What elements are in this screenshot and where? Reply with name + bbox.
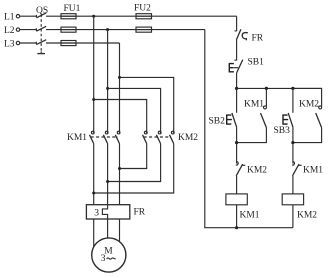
node dot U crossover xyxy=(92,98,95,101)
wire to KM2 coil xyxy=(292,176,294,194)
thermal relay FR heater box xyxy=(86,205,129,219)
wire control feed from row1 xyxy=(236,16,238,31)
wire W to motor xyxy=(119,219,121,242)
wire V below contact xyxy=(107,144,109,205)
svg-text:FR: FR xyxy=(134,208,146,218)
svg-text:L3: L3 xyxy=(4,39,15,49)
wire KM2 coil to rail xyxy=(292,205,294,228)
node dot KM1 aux tap xyxy=(265,87,268,90)
contactor KM1 main pole 3 xyxy=(115,131,120,143)
QS linkage dashed xyxy=(40,15,42,52)
contact KM2 aux NO xyxy=(293,88,322,142)
wire phase W vertical xyxy=(119,43,121,133)
fuse FU2 pole1 xyxy=(136,14,152,19)
wire FR to SB1 xyxy=(236,40,238,60)
wire row3 QS to drop xyxy=(46,42,120,44)
FR heater element symbol xyxy=(102,205,107,219)
wire row1 QS to control corner xyxy=(46,15,237,17)
KM1 linkage dashed xyxy=(91,136,118,138)
node dot branch B rejoin xyxy=(291,141,294,144)
wire L1 to QS xyxy=(20,15,37,17)
node L2 terminal xyxy=(16,28,19,31)
svg-text:KM1: KM1 xyxy=(240,210,260,220)
node dot W join xyxy=(118,167,121,170)
svg-text:FU1: FU1 xyxy=(64,4,81,14)
KM2 linkage dashed xyxy=(144,136,171,138)
fuse FU1 pole2 xyxy=(61,27,76,32)
contact KM1 NC interlock xyxy=(292,162,302,176)
wire phase V vertical xyxy=(107,30,109,134)
svg-text:FU2: FU2 xyxy=(134,4,151,14)
svg-text:3: 3 xyxy=(94,209,99,219)
wire L2 to QS xyxy=(20,29,37,31)
wire control return from row2 xyxy=(205,30,293,228)
pushbutton SB2 NO xyxy=(227,113,237,127)
QS handle bar xyxy=(37,52,45,54)
node dot V crossover xyxy=(106,87,109,90)
coil KM1 xyxy=(226,194,247,205)
wire KM2 pole2 out to V xyxy=(108,144,161,182)
contact KM2 NC interlock xyxy=(236,162,246,176)
contactor KM2 main pole 3 xyxy=(170,131,175,143)
svg-text:QS: QS xyxy=(36,6,48,16)
node L1 terminal xyxy=(16,15,19,18)
svg-text:KM1: KM1 xyxy=(244,99,264,109)
svg-text:KM1: KM1 xyxy=(303,165,323,175)
svg-text:KM1: KM1 xyxy=(67,133,87,143)
svg-text:FR: FR xyxy=(252,34,264,44)
wire KM2 pole3 out to U xyxy=(94,144,174,193)
wire U to motor xyxy=(93,219,95,247)
wire L3 to QS xyxy=(20,42,37,44)
pushbutton SB3 NO xyxy=(283,113,293,127)
switch QS pole 2 xyxy=(36,26,46,31)
wire node to SB2 xyxy=(236,88,238,112)
pushbutton SB1 NC xyxy=(229,60,243,73)
node L3 terminal xyxy=(16,41,19,44)
node dot branch A rejoin xyxy=(235,141,238,144)
svg-text:KM2: KM2 xyxy=(178,133,198,143)
node dot control top left xyxy=(235,87,238,90)
svg-text:KM2: KM2 xyxy=(247,165,267,175)
wire to KM2 interlock xyxy=(236,143,238,164)
node dot L1 drop xyxy=(92,15,95,18)
switch QS pole 1 xyxy=(36,13,46,18)
svg-text:SB1: SB1 xyxy=(248,57,265,67)
wire W to KM2 pole3 xyxy=(120,77,174,133)
contactor KM2 main pole 2 xyxy=(156,131,161,143)
fuse FU1 pole3 xyxy=(61,41,76,46)
wire KM1 coil to rail xyxy=(236,205,238,228)
wire to KM1 coil xyxy=(236,176,238,194)
wire V to KM2 pole2 xyxy=(108,88,161,133)
contactor KM1 main pole 1 xyxy=(90,131,95,143)
svg-text:SB2: SB2 xyxy=(209,117,226,127)
svg-text:KM2: KM2 xyxy=(297,210,317,220)
coil KM2 xyxy=(282,194,303,205)
wire SB3 down xyxy=(292,127,294,142)
contact FR NC control xyxy=(235,29,248,40)
svg-text:L1: L1 xyxy=(4,13,15,23)
wire W below contact xyxy=(119,144,121,205)
node dot V join xyxy=(106,180,109,183)
fuse FU2 pole2 xyxy=(136,27,152,32)
contactor KM2 main pole 1 xyxy=(143,131,148,143)
fuse FU1 pole1 xyxy=(61,14,76,19)
node dot U join xyxy=(92,192,95,195)
wire phase U vertical xyxy=(93,16,95,133)
wire control top rail xyxy=(237,87,322,89)
node dot L2 drop xyxy=(106,28,109,31)
wire SB1 to node xyxy=(236,73,238,89)
contactor KM1 main pole 2 xyxy=(103,131,108,143)
wire row2 QS to corner xyxy=(46,29,205,31)
node dot W crossover xyxy=(118,76,121,79)
wire V to motor xyxy=(107,219,109,238)
wire node to SB3 xyxy=(292,88,294,112)
svg-text:KM2: KM2 xyxy=(299,99,319,109)
svg-text:SB3: SB3 xyxy=(274,126,291,136)
wire KM2 pole1 out to W xyxy=(120,144,147,169)
svg-text:M: M xyxy=(104,247,113,257)
wire U below contact xyxy=(93,144,95,205)
svg-text:L2: L2 xyxy=(4,26,15,36)
svg-text:3: 3 xyxy=(101,254,106,264)
wire to KM1 interlock xyxy=(292,143,294,164)
wire SB2 down xyxy=(236,127,238,142)
contact KM1 aux NO xyxy=(237,88,267,142)
motor M circle xyxy=(92,238,126,272)
node dot bottom rail xyxy=(235,226,238,229)
wire U to KM2 pole1 xyxy=(94,100,147,134)
switch QS pole 3 xyxy=(36,40,46,45)
node dot branch B tap xyxy=(291,87,294,90)
